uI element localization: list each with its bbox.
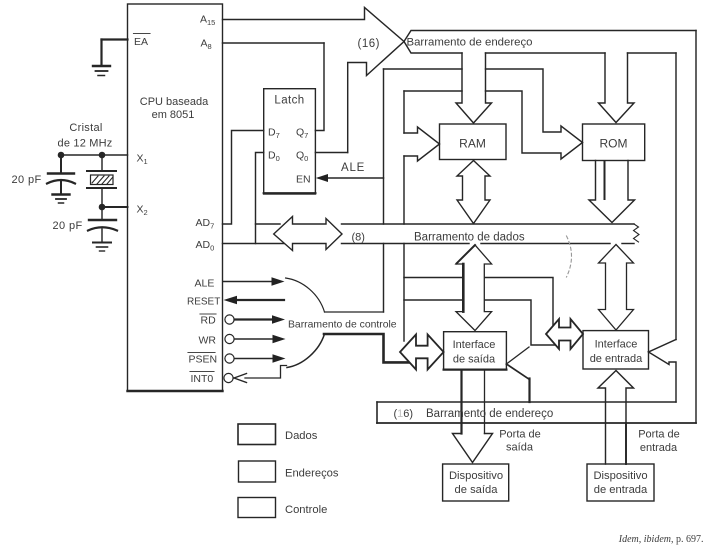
Dispositivo de saida block	[443, 464, 509, 501]
thick control feed into saida bottom right	[506, 347, 529, 364]
wire Q0 to address arrow	[315, 152, 347, 154]
fat-bus horizontal pair to ROM feed	[384, 69, 583, 159]
svg-text:de entrada: de entrada	[594, 484, 648, 496]
control-bus funnel upper curve	[286, 278, 325, 312]
svg-text:ALE: ALE	[341, 162, 365, 174]
svg-text:RESET: RESET	[187, 297, 220, 308]
svg-text:Dados: Dados	[285, 430, 318, 442]
control-bus thick line to output interface	[324, 334, 409, 362]
svg-text:Endereços: Endereços	[285, 468, 339, 480]
Dispositivo de entrada block	[587, 464, 654, 501]
Interface de saida block	[444, 332, 507, 370]
bidirectional arrow between interfaces	[546, 319, 583, 349]
svg-text:Dispositivo: Dispositivo	[593, 470, 647, 482]
svg-text:X2: X2	[137, 204, 148, 218]
node X1-crystal junction	[99, 152, 106, 159]
arrow address bus to ROM top	[599, 53, 635, 123]
svg-text:Q0: Q0	[296, 150, 308, 164]
svg-text:20 pF: 20 pF	[12, 174, 42, 186]
latch U2 block	[264, 89, 316, 194]
fat-bus pair below data bus	[404, 278, 553, 326]
arrow INT0 in	[245, 366, 287, 379]
arrow down to Dispositivo de saida	[453, 434, 493, 463]
svg-text:20 pF: 20 pF	[53, 220, 83, 232]
node X2-crystal junction	[99, 204, 106, 211]
dark line inside saida arrow	[462, 264, 465, 312]
svg-text:RD: RD	[201, 315, 217, 327]
arrow PSEN out	[235, 358, 275, 360]
svg-text:A15: A15	[200, 14, 215, 28]
legend box Dados	[238, 424, 276, 445]
CPU U1 block (CPU baseada em 8051)	[128, 4, 223, 391]
pin circle INT0	[224, 373, 233, 382]
svg-text:PSEN: PSEN	[189, 354, 218, 366]
(16) Barramento de endereco band	[376, 402, 378, 423]
left fat-bus inner edge	[403, 91, 405, 224]
svg-text:Dispositivo: Dispositivo	[449, 470, 503, 482]
svg-text:de 12 MHz: de 12 MHz	[58, 138, 113, 150]
wire Q7 to A8 line	[315, 43, 324, 131]
svg-text:CPU baseada: CPU baseada	[140, 96, 209, 108]
wire X1	[61, 154, 128, 156]
svg-text:Q7: Q7	[296, 127, 308, 141]
svg-text:X1: X1	[137, 153, 148, 167]
capacitor C2 20 pF	[101, 207, 103, 220]
svg-text:Interface: Interface	[453, 339, 496, 351]
svg-text:saída: saída	[506, 442, 534, 454]
svg-text:Idem, ibidem, p. 697.: Idem, ibidem, p. 697.	[618, 534, 704, 545]
svg-text:AD7: AD7	[196, 217, 215, 231]
left fat-bus outer edge	[383, 69, 385, 224]
svg-text:Barramento de controle: Barramento de controle	[288, 320, 397, 331]
address bus band (Barramento de endereco)	[404, 31, 696, 42]
svg-text:Interface: Interface	[595, 339, 638, 351]
wire EA pin	[102, 38, 128, 40]
svg-text:INT0: INT0	[191, 373, 214, 385]
arrow WR out	[235, 338, 275, 340]
svg-text:(16): (16)	[394, 408, 414, 420]
wire AD0 to D0	[256, 153, 264, 244]
bus continuation squiggle	[567, 236, 572, 277]
bidirectional arrow RAM to data bus	[457, 161, 490, 224]
pin circle WR	[225, 334, 234, 343]
Interface de entrada block	[583, 331, 649, 369]
arrow ROM down to data bus	[589, 161, 635, 223]
svg-text:Latch: Latch	[274, 95, 304, 107]
arrow up into Interface de entrada bottom	[598, 371, 634, 465]
svg-text:D7: D7	[268, 127, 280, 141]
right outer bus edge	[695, 31, 697, 424]
wire A8	[223, 42, 325, 44]
wire EA to ground	[100, 40, 102, 66]
arrow fat-bus to RAM left	[404, 127, 440, 161]
legend box Controle	[238, 498, 276, 518]
wire ALE to EN	[319, 177, 384, 179]
node X1-C1 junction	[58, 152, 65, 159]
svg-text:(16): (16)	[358, 38, 380, 50]
RAM block	[440, 124, 507, 160]
svg-text:ROM: ROM	[600, 137, 628, 151]
svg-text:de saída: de saída	[455, 484, 499, 496]
ground for C2	[93, 242, 111, 244]
svg-text:Porta de: Porta de	[638, 429, 680, 441]
control-bus funnel lower curve	[287, 334, 325, 368]
wire AD7 to D7	[223, 131, 264, 225]
wire A15 / big address-bus arrow top edge	[223, 8, 405, 153]
svg-text:em 8051: em 8051	[152, 109, 195, 121]
svg-text:WR: WR	[199, 335, 217, 347]
capacitor C1 20 pF	[60, 155, 62, 173]
bidirectional arrow data bus to Interface de saida	[456, 245, 492, 331]
arrow RD out	[235, 318, 274, 320]
bidirectional arrow data bus to Interface de entrada	[599, 245, 634, 331]
pin circle RD	[225, 315, 234, 324]
wire X2	[102, 206, 128, 208]
svg-text:Porta de: Porta de	[499, 429, 541, 441]
arrow address bus right into Interface de entrada	[649, 340, 677, 403]
data bus jagged right end	[634, 224, 640, 242]
legend box Enderecos	[239, 461, 276, 482]
svg-text:AD0: AD0	[196, 239, 215, 253]
svg-text:Controle: Controle	[285, 504, 327, 516]
left fat-bus outer edge lower segment marker	[383, 244, 385, 313]
data bus band bottom (AD0 line)	[223, 243, 288, 245]
svg-text:entrada: entrada	[640, 442, 678, 454]
svg-text:Cristal: Cristal	[69, 122, 102, 134]
bidirectional arrow (8) on data bus	[274, 217, 342, 251]
ROM block	[583, 124, 645, 161]
wires Interface de saida down (Porta de saida)	[460, 370, 462, 434]
svg-text:(8): (8)	[352, 232, 365, 244]
arrow address bus to RAM top	[456, 53, 492, 123]
svg-text:de entrada: de entrada	[590, 353, 643, 365]
arrow RESET in	[236, 299, 284, 301]
crystal Y1 12 MHz	[101, 155, 103, 171]
svg-text:de saída: de saída	[453, 354, 496, 366]
svg-text:D0: D0	[268, 150, 280, 164]
svg-text:RAM: RAM	[459, 137, 486, 151]
svg-text:Barramento de endereço: Barramento de endereço	[407, 37, 533, 49]
ground for C1	[53, 193, 70, 195]
svg-text:EA: EA	[134, 36, 148, 48]
control-bus funnel top line	[325, 311, 384, 313]
right inner bus edge upper	[675, 53, 677, 340]
svg-text:EN: EN	[296, 174, 311, 186]
svg-text:A8: A8	[201, 38, 212, 52]
arrow ALE out	[223, 281, 273, 283]
ground for EA	[93, 65, 110, 67]
svg-text:ALE: ALE	[195, 278, 215, 290]
bidirectional arrow control to Interface de saida left	[400, 335, 444, 370]
pin circle PSEN	[225, 354, 234, 363]
svg-text:Barramento de endereço: Barramento de endereço	[426, 408, 553, 420]
dark line inside ROM down arrow	[604, 161, 606, 199]
svg-text:Barramento de dados: Barramento de dados	[414, 232, 525, 244]
data bus band top (AD7 line)	[256, 223, 281, 225]
